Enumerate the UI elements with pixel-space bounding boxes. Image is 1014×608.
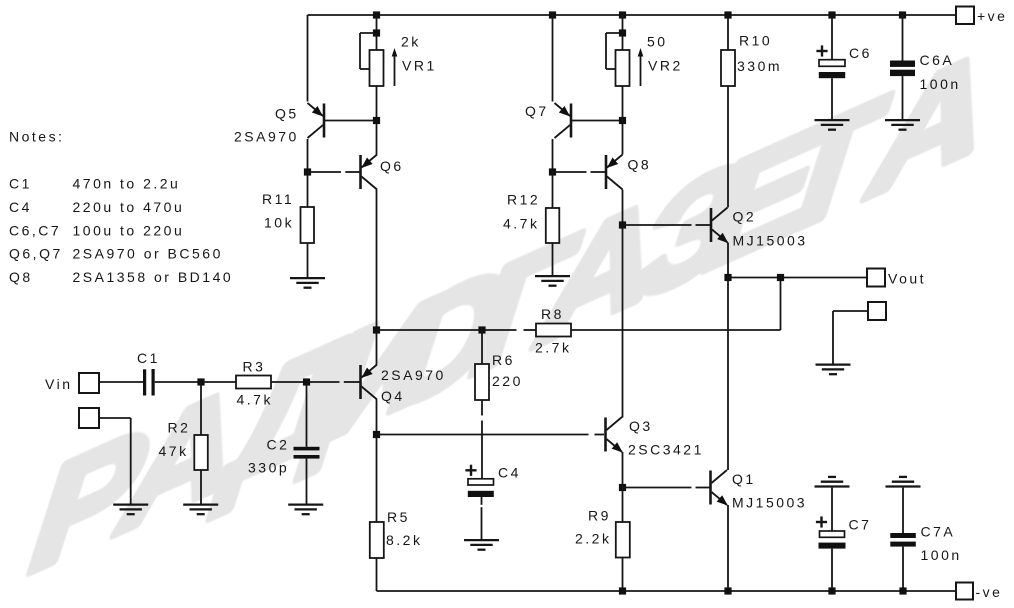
transistor Q6 2SA970 — [359, 155, 362, 189]
svg-text:4.7k: 4.7k — [237, 392, 273, 408]
svg-text:Q7: Q7 — [525, 103, 549, 119]
node K junction R6 top — [478, 326, 485, 333]
resistor R12 — [546, 208, 560, 243]
wire node M to Vout — [728, 277, 867, 279]
wire R8 to output node — [571, 329, 781, 331]
svg-text:2.2k: 2.2k — [575, 531, 611, 547]
node B junction R3/C2/Q4 base — [303, 378, 310, 385]
terminal -ve box — [956, 583, 973, 600]
svg-text:100u to 220u: 100u to 220u — [73, 223, 185, 239]
wire node A to R3 — [201, 381, 236, 383]
node VR1 wiper junction — [373, 29, 380, 36]
svg-text:C4: C4 — [9, 199, 32, 215]
transistor Q8 2SA1358 — [605, 155, 608, 189]
watermark РАДИОГАЗЕТА — [0, 0, 1, 1]
svg-text:Q8: Q8 — [628, 157, 652, 173]
wire rail to R10 — [727, 15, 729, 50]
node C6A rail junction — [899, 11, 906, 18]
svg-text:VR2: VR2 — [648, 58, 683, 74]
wire R6 to C4 — [481, 400, 483, 416]
wire Q8 collector down to node H — [622, 190, 624, 226]
node C6 rail junction — [828, 11, 835, 18]
ground C6 — [815, 119, 850, 121]
svg-text:C1: C1 — [137, 350, 160, 366]
wire Q2 base — [623, 224, 692, 226]
node VR1 top rail junction — [373, 11, 380, 18]
wire Q6 base — [308, 171, 342, 173]
svg-text:R12: R12 — [507, 192, 540, 208]
wire R11 to ground — [307, 243, 309, 277]
resistor R3 — [236, 376, 271, 389]
wire Q6 collector down to node E — [376, 190, 378, 331]
node VR2 wiper junction — [619, 29, 626, 36]
svg-text:4.7k: 4.7k — [503, 216, 539, 232]
wire R3 to node B — [271, 381, 307, 383]
wire C7A to -ve rail — [902, 547, 904, 591]
wire bottom -ve rail — [377, 590, 957, 592]
terminal Vin box — [79, 373, 99, 393]
svg-text:Q3: Q3 — [629, 418, 653, 434]
svg-text:VR1: VR1 — [402, 58, 437, 74]
wire Q1 emitter to -ve rail — [727, 505, 729, 591]
ground R12 — [535, 275, 570, 277]
svg-text:2SA970: 2SA970 — [234, 129, 299, 145]
svg-text:C6: C6 — [849, 45, 872, 61]
node J junction Q4 collector/R5/Q3 base wire — [373, 431, 380, 438]
wire node J to Q3 base — [377, 434, 589, 436]
svg-text:C1: C1 — [9, 176, 32, 192]
capacitor C7 plus — [816, 521, 827, 523]
ground R11 — [290, 277, 325, 279]
wire rail to C6A — [902, 15, 904, 61]
wire R5 to -ve rail — [376, 558, 378, 591]
wire Q2 emitter down to node M — [727, 243, 729, 278]
wire Q3 emitter down to node L — [622, 452, 624, 488]
wire node C to R11 — [307, 172, 309, 207]
ground C7A (inverted) — [886, 485, 921, 487]
wire Q5 collector down — [307, 139, 309, 172]
wire Q4 emitter up to node E — [376, 330, 378, 365]
svg-text:2SA970 or BC560: 2SA970 or BC560 — [73, 246, 223, 262]
node R9 rail junction — [619, 587, 626, 594]
svg-text:R5: R5 — [387, 509, 410, 525]
svg-text:Q6: Q6 — [380, 158, 404, 174]
wire node L to R9 — [622, 488, 624, 523]
svg-text:R8: R8 — [541, 306, 564, 322]
svg-text:47k: 47k — [159, 443, 189, 459]
svg-text:Q5: Q5 — [275, 106, 299, 122]
svg-text:MJ15003: MJ15003 — [732, 495, 807, 511]
svg-text:C6A: C6A — [920, 52, 955, 68]
svg-text:220u to 470u: 220u to 470u — [73, 199, 185, 215]
svg-text:R3: R3 — [243, 359, 266, 375]
capacitor C4 plus — [465, 469, 476, 471]
capacitor C7 negative plate — [819, 543, 846, 549]
svg-text:-ve: -ve — [976, 584, 1003, 600]
svg-text:470n to 2.2u: 470n to 2.2u — [73, 176, 181, 192]
capacitor C4 positive plate — [468, 479, 494, 485]
svg-text:100n: 100n — [921, 547, 962, 563]
resistor R5 lead — [376, 435, 378, 523]
transistor Q5 2SA970 — [323, 104, 326, 138]
svg-text:330p: 330p — [248, 460, 289, 476]
capacitor C7 positive plate — [820, 531, 845, 537]
wire C6A to ground — [902, 76, 904, 119]
node N junction output/feedback — [777, 274, 784, 281]
node F junction Q7 collector/Q8 base/R12 — [549, 168, 556, 175]
wire node K to R6 — [481, 330, 483, 364]
wire Q1 base — [623, 487, 692, 489]
svg-text:R2: R2 — [168, 420, 191, 436]
resistor R2 — [194, 435, 208, 470]
node A junction C1/R2/R3 — [197, 378, 204, 385]
node Q7 rail junction — [549, 11, 556, 18]
capacitor C6 negative plate — [819, 72, 845, 78]
svg-text:2SA1358 or BD140: 2SA1358 or BD140 — [73, 269, 234, 285]
ground C4 — [464, 539, 499, 541]
capacitor C6 plus — [816, 50, 827, 52]
svg-text:Q6,Q7: Q6,Q7 — [9, 246, 63, 262]
capacitor C1 plates — [143, 369, 146, 395]
terminal +ve box — [956, 7, 974, 25]
wire Q7 base to node VR2 bottom — [572, 120, 623, 122]
wire R9 to -ve rail — [622, 558, 624, 592]
transistor Q7 2SA970 — [570, 104, 573, 138]
wire top +ve rail — [308, 14, 957, 16]
wire node E to R8 — [377, 329, 517, 331]
svg-text:Q8: Q8 — [9, 269, 33, 285]
capacitor C4 negative plate — [468, 491, 494, 497]
capacitor C7A plates — [890, 533, 916, 538]
ground input return — [113, 503, 148, 505]
node M junction Q2 emitter/Q1 collector/output — [724, 274, 731, 281]
svg-text:R11: R11 — [262, 191, 294, 207]
wire rail corner down to Q5 emitter — [307, 15, 309, 102]
svg-text:Q4: Q4 — [381, 388, 405, 404]
wire R10 to Q2 collector — [727, 86, 729, 208]
wire C1 to node A — [155, 381, 201, 383]
ground C6A — [885, 119, 920, 121]
transistor Q3 2SC3421 — [604, 418, 607, 452]
terminal input return box — [79, 408, 99, 428]
wire Q7 collector down — [552, 139, 554, 172]
wire C7 to -ve rail — [831, 549, 833, 591]
wire C4 to ground — [481, 497, 483, 505]
resistor R5 — [370, 522, 384, 558]
svg-text:MJ15003: MJ15003 — [733, 233, 808, 249]
node C7 rail junction — [828, 587, 835, 594]
wire C6 to ground — [831, 78, 833, 119]
svg-text:R6: R6 — [492, 352, 515, 368]
capacitor C2 plates — [294, 447, 320, 451]
resistor R11 — [301, 207, 315, 243]
wire R12 to ground — [552, 243, 554, 275]
resistor R9 — [616, 522, 630, 558]
svg-text:C6,C7: C6,C7 — [9, 223, 61, 239]
wire node M down to Q1 collector — [727, 278, 729, 471]
wire C2 to ground — [306, 459, 308, 504]
svg-text:2SC3421: 2SC3421 — [628, 442, 704, 458]
terminal Vout box — [867, 269, 885, 287]
wire R2 to ground — [200, 470, 202, 504]
svg-text:C2: C2 — [267, 437, 290, 453]
resistor R8 — [536, 324, 571, 337]
node E junction Q6 collector/Q4 emitter/feedback — [373, 326, 380, 333]
wire node B to Q4 base — [307, 381, 340, 383]
ground C7 (inverted) — [815, 485, 850, 487]
node C junction Q5 collector/Q6 base/R11 — [304, 168, 311, 175]
terminal output return box — [868, 302, 886, 320]
svg-text:C4: C4 — [498, 465, 521, 481]
svg-text:2k: 2k — [401, 34, 421, 50]
ground R2 — [183, 503, 218, 505]
wire ground to C7A — [902, 488, 904, 533]
node C7A rail junction — [899, 587, 906, 594]
node D junction VR1 bottom/Q5 base/Q6 emitter — [373, 117, 380, 124]
transistor Q4 2SA970 — [359, 365, 362, 399]
wire Vin to C1 — [99, 381, 143, 383]
svg-text:2.7k: 2.7k — [535, 340, 571, 356]
node G junction VR2 bottom/Q7 base/Q8 emitter — [619, 117, 626, 124]
wire Q5 base to node VR1 bottom — [325, 120, 377, 122]
wire rail to C6 — [831, 15, 833, 60]
svg-text:Vout: Vout — [888, 271, 926, 287]
svg-text:8.2k: 8.2k — [386, 532, 422, 548]
svg-text:220: 220 — [492, 373, 523, 389]
node R10 rail junction — [724, 11, 731, 18]
svg-text:Notes:: Notes: — [9, 129, 64, 145]
wire rail down to Q7 emitter — [552, 15, 554, 102]
wire output return to ground — [833, 310, 868, 312]
svg-text:2SA970: 2SA970 — [381, 367, 446, 383]
wire Q8 base — [553, 171, 587, 173]
node VR2 top rail junction — [619, 11, 626, 18]
resistor R2 lead — [200, 382, 202, 435]
transistor Q2 MJ15003 — [710, 208, 713, 242]
variable resistor VR2 50 — [622, 15, 624, 50]
capacitor C6 positive plate — [819, 60, 845, 67]
ground C2 — [288, 503, 323, 505]
svg-text:50: 50 — [647, 34, 668, 50]
svg-text:R9: R9 — [588, 508, 611, 524]
capacitor C2 lead — [306, 382, 308, 447]
transistor Q1 MJ15003 — [709, 471, 712, 505]
resistor R10 — [721, 50, 735, 86]
svg-text:+ve: +ve — [977, 8, 1007, 24]
svg-text:R10: R10 — [739, 33, 772, 49]
node H junction Q8 collector/Q2 base — [619, 221, 626, 228]
wire ground to C7 — [831, 488, 833, 531]
wire node H down to Q3 collector — [622, 225, 624, 418]
wire node F to R12 — [552, 172, 554, 208]
capacitor C6A plates — [890, 61, 915, 67]
wire Q4 collector down to node J — [376, 400, 378, 435]
svg-text:Vin: Vin — [45, 376, 72, 392]
svg-text:C7A: C7A — [921, 524, 956, 540]
svg-text:330m: 330m — [737, 58, 782, 74]
resistor R6 — [475, 364, 489, 400]
svg-text:10k: 10k — [264, 215, 294, 231]
svg-text:C7: C7 — [849, 517, 872, 533]
svg-text:Q1: Q1 — [732, 471, 756, 487]
svg-text:Q2: Q2 — [733, 209, 757, 225]
node Q1 rail junction — [724, 587, 731, 594]
ground output return — [816, 363, 851, 365]
node L junction Q3 emitter/R9/Q1 base — [619, 484, 626, 491]
svg-text:100n: 100n — [920, 76, 961, 92]
wire input return — [99, 417, 131, 419]
variable resistor VR1 2k — [376, 15, 378, 50]
